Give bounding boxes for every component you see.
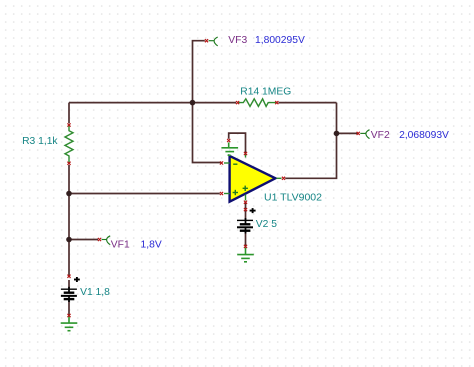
wire bbox=[68, 165, 70, 276]
inverting input cross bbox=[220, 161, 223, 164]
VF3 tap cross bbox=[205, 39, 208, 42]
pin crosses (red x) bbox=[67, 39, 359, 317]
plus sign supply bbox=[243, 186, 248, 191]
svg-text:V1 1,8: V1 1,8 bbox=[80, 287, 110, 298]
wire bbox=[245, 232, 247, 247]
wire bbox=[193, 41, 222, 163]
probe VF1 bbox=[102, 236, 111, 245]
ground (op-amp V-) bbox=[221, 143, 238, 156]
svg-text:R3 1,1k: R3 1,1k bbox=[22, 136, 58, 147]
minus sign bbox=[233, 163, 237, 165]
wire bbox=[68, 280, 70, 289]
resistor R3 bbox=[65, 125, 73, 163]
ground (below V2) bbox=[237, 248, 254, 262]
node junction dot bbox=[66, 237, 72, 243]
R14 left cross bbox=[236, 101, 239, 104]
svg-text:1,8V: 1,8V bbox=[141, 240, 162, 251]
probe VF3 bbox=[209, 37, 218, 46]
top supply pin cross bbox=[244, 152, 247, 155]
node junction dot bbox=[334, 131, 340, 137]
svg-text:VF2: VF2 bbox=[371, 130, 390, 141]
svg-text:R14 1MEG: R14 1MEG bbox=[240, 87, 291, 98]
svg-text:VF1: VF1 bbox=[111, 240, 130, 251]
svg-text:1,800295V: 1,800295V bbox=[255, 35, 305, 46]
wire bbox=[68, 103, 70, 124]
wire bbox=[229, 133, 246, 154]
node junction dot bbox=[190, 100, 196, 106]
svg-text:U1 TLV9002: U1 TLV9002 bbox=[264, 191, 322, 203]
wire bbox=[69, 239, 98, 241]
wire bbox=[245, 202, 247, 220]
VF2 tap cross bbox=[357, 132, 360, 135]
wire bbox=[279, 102, 337, 104]
output cross bbox=[282, 177, 285, 180]
node junction dot bbox=[66, 191, 72, 197]
plus sign input bbox=[233, 190, 238, 195]
ground (below V1) bbox=[61, 317, 78, 331]
resistor R14 bbox=[238, 99, 277, 107]
wire bbox=[69, 102, 236, 104]
wire bbox=[337, 132, 359, 134]
R3 top cross bbox=[67, 123, 70, 126]
wire VF3 tap: corner at (192.5,40.7) to junction and right stub bbox=[69, 41, 358, 315]
pin stubs bbox=[224, 153, 282, 201]
V1 top pin cross bbox=[67, 275, 70, 278]
wire bbox=[68, 300, 70, 316]
probe VF2 bbox=[360, 130, 369, 139]
V2 top pin cross bbox=[244, 208, 247, 211]
op-amp U1 bbox=[224, 153, 282, 202]
svg-text:VF3: VF3 bbox=[228, 35, 247, 46]
svg-text:V2 5: V2 5 bbox=[256, 219, 277, 230]
VF1 tap cross bbox=[98, 238, 101, 241]
opamp V+ pin cross bbox=[244, 201, 247, 204]
V1 bottom pin cross bbox=[67, 314, 70, 317]
top ground pin cross bbox=[227, 139, 230, 142]
noninverting input cross bbox=[220, 192, 223, 195]
R14 right cross bbox=[275, 101, 278, 104]
wire bbox=[285, 103, 336, 179]
V2 bottom pin cross bbox=[244, 245, 247, 248]
battery V2 bbox=[237, 218, 253, 234]
R3 bottom cross bbox=[67, 162, 70, 165]
battery V1 bbox=[61, 287, 77, 302]
svg-text:2,068093V: 2,068093V bbox=[399, 130, 449, 141]
wire bbox=[69, 193, 220, 195]
plus mark V1 bbox=[74, 277, 80, 282]
plus mark V2 bbox=[250, 208, 256, 213]
